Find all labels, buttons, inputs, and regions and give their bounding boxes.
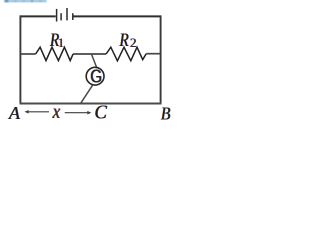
svg-text:B: B (161, 104, 171, 124)
svg-text:1: 1 (58, 35, 64, 50)
svg-text:R: R (119, 30, 130, 51)
svg-text:2: 2 (130, 35, 137, 50)
svg-text:x: x (52, 101, 61, 124)
svg-text:C: C (95, 102, 107, 124)
svg-text:A: A (8, 103, 21, 123)
svg-text:G: G (90, 66, 102, 87)
